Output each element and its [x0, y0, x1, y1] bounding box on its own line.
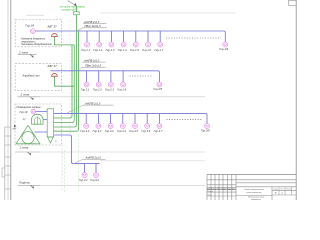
svg-text:АВТ 37: АВТ 37	[47, 24, 58, 28]
svg-text:Пров.: Пров.	[208, 194, 213, 196]
svg-text:ПВнг 3х2х1,5: ПВнг 3х2х1,5	[85, 63, 102, 67]
svg-text:Стадия: Стадия	[273, 189, 278, 191]
svg-text:АпКПВ 2х1,5: АпКПВ 2х1,5	[83, 58, 100, 62]
svg-text:Аэробный зал: Аэробный зал	[22, 74, 40, 78]
svg-text:АпКПВ 2х1,5: АпКПВ 2х1,5	[84, 101, 101, 105]
svg-text:АпКПВ 2х1,5: АпКПВ 2х1,5	[83, 20, 100, 24]
svg-text:Гир.1.4: Гир.1.4	[118, 48, 127, 52]
svg-text:Гир.2.4: Гир.2.4	[117, 87, 126, 91]
svg-text:Гир.1.7: Гир.1.7	[154, 48, 163, 52]
svg-text:Гир.1.6: Гир.1.6	[142, 48, 151, 52]
svg-text:Гир.3.2: Гир.3.2	[90, 178, 99, 182]
svg-text:Гир.3/9: Гир.3/9	[201, 128, 210, 132]
svg-text:кг: кг	[55, 141, 58, 143]
svg-text:1 зона: 1 зона	[20, 145, 29, 149]
svg-text:2 зона: 2 зона	[18, 50, 28, 54]
svg-text:освещение: освещение	[251, 199, 261, 200]
svg-text:Гир.2/5: Гир.2/5	[153, 87, 162, 91]
svg-text:Схема электрическая: Схема электрическая	[244, 189, 264, 191]
svg-text:бытовым оборудованием: бытовым оборудованием	[21, 43, 52, 46]
svg-text:Р: Р	[275, 192, 277, 195]
svg-text:Гир.2.3: Гир.2.3	[105, 87, 114, 91]
svg-text:АУ: АУ	[22, 118, 26, 121]
svg-text:Гир.1/8: Гир.1/8	[26, 24, 35, 28]
svg-text:Гир.1.1: Гир.1.1	[81, 48, 90, 52]
svg-text:Гир.3.1: Гир.3.1	[79, 178, 88, 182]
svg-text:Помещение охраны: Помещение охраны	[17, 105, 41, 109]
svg-text:Гир.3.5: Гир.3.5	[129, 129, 138, 133]
svg-text:Гир.3.1: Гир.3.1	[80, 129, 89, 133]
svg-text:Гир.2.2: Гир.2.2	[93, 87, 102, 91]
svg-text:Разраб: Разраб	[208, 191, 214, 193]
svg-text:Гир.1/9: Гир.1/9	[219, 47, 228, 51]
svg-text:Гир.3.3: Гир.3.3	[105, 129, 114, 133]
svg-text:Листов: Листов	[286, 189, 291, 191]
svg-text:питания ЩАП: питания ЩАП	[62, 9, 78, 12]
svg-text:Лифты: Лифты	[18, 180, 31, 184]
svg-text:АпКПВ 2х1,5: АпКПВ 2х1,5	[85, 155, 102, 159]
svg-text:Гир.1.2: Гир.1.2	[93, 48, 102, 52]
svg-text:Гир.3.6: Гир.3.6	[141, 129, 150, 133]
svg-text:Лист: Лист	[280, 189, 284, 191]
svg-text:Гир.3.4: Гир.3.4	[117, 129, 126, 133]
svg-text:АВТ 37: АВТ 37	[47, 64, 58, 68]
svg-text:Гир.1.3: Гир.1.3	[106, 48, 115, 52]
svg-text:Гир.3.7: Гир.3.7	[154, 129, 163, 133]
svg-text:Гир.2.1: Гир.2.1	[81, 87, 90, 91]
svg-text:ПВнг 3х2х1,5: ПВнг 3х2х1,5	[85, 24, 102, 28]
svg-text:сети освещения: сети освещения	[247, 192, 262, 194]
svg-text:2 зона: 2 зона	[20, 92, 30, 96]
svg-text:Гир.3.2: Гир.3.2	[93, 129, 102, 133]
svg-text:1: 1	[281, 192, 283, 195]
svg-text:Гир.1.5: Гир.1.5	[130, 48, 139, 52]
svg-text:Гир.10: Гир.10	[20, 110, 28, 114]
svg-text:кВУ: кВУ	[13, 129, 17, 131]
